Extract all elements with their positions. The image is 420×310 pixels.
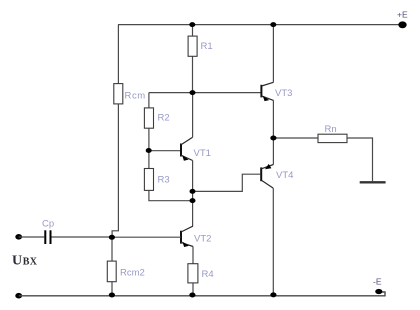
wire: R1 column (rail to node A) [192,25,194,93]
wire: VT4 collector down to rail [272,188,274,295]
terminal +E [398,21,406,28]
junction input node [109,235,115,240]
svg-text:VT3: VT3 [275,88,292,99]
input terminal top [15,234,22,240]
wire: Rcm column from +E rail to input node [112,25,118,238]
wire: top +E rail [118,24,401,26]
svg-text:VT1: VT1 [194,148,211,159]
ground [360,181,386,183]
junction VT4 collector on rail [270,292,276,297]
junction R2/R3/VT1 base [146,148,152,153]
resistor R4 [188,264,198,283]
wire: Rn to ground [347,138,373,181]
resistor R1 [188,36,197,56]
junction on rail at VT3 collector [270,22,276,27]
junction Rcm2 bottom on rail [109,293,115,298]
terminal -E [375,289,382,294]
transistor VT1 [181,137,193,160]
junction VT1 emitter to VT4 base [190,189,196,194]
svg-text:VT2: VT2 [194,234,211,245]
wire: VT3 emitter down to output node [272,100,274,138]
svg-text:VT4: VT4 [276,170,293,181]
wire: output node to Rn [273,137,318,139]
wire: VT4 emitter up to output node [272,138,274,165]
svg-text:R2: R2 [158,113,170,124]
svg-text:UВХ: UВХ [12,254,38,269]
junction node A (R1 bottom) [190,90,196,95]
resistor R2 [144,108,153,128]
wire: VT2 base from input node [112,236,181,238]
wire: node A horizontal to VT3 base [149,92,262,94]
wire: bottom rail [19,292,385,296]
junction R4 bottom on rail [189,293,195,298]
junction output node [270,136,276,141]
junction R3 bottom on emitter column [190,198,196,203]
svg-text:Rcm2: Rcm2 [120,267,145,278]
wire: VT1 base [149,150,181,152]
svg-text:Cp: Cp [42,219,54,230]
svg-text:R3: R3 [158,175,170,186]
wire: input to capacitor [19,236,45,238]
wire: VT2 emitter down to R4 and rail [192,247,194,296]
svg-text:R1: R1 [201,41,213,52]
wire: from emitter node to VT4 base [193,174,261,191]
resistor Rcm [114,84,123,104]
transistor VT4 [261,164,273,188]
transistor VT3 [261,82,273,101]
svg-text:-E: -E [373,276,382,286]
wire: VT3 collector up to rail [272,25,274,83]
resistor Rn [318,134,347,142]
input terminal bottom [15,293,22,299]
wire: VT1 collector up to node A [192,93,194,138]
wire: R3 column and bottom jog to VT1 emitter column [149,151,192,201]
svg-text:+E: +E [397,9,408,19]
wire: Rcm2 column [111,237,113,295]
svg-text:R4: R4 [202,269,214,280]
capacitor Cp [45,230,50,244]
resistor R3 [144,169,153,191]
wire: capacitor to input node [52,236,113,238]
transistor VT2 [181,226,193,247]
wire: R2 column [148,93,150,151]
resistor Rcm2 [107,261,116,282]
junction on rail at R1 [189,22,195,27]
wire: VT1 emitter column down to VT2 collector [192,161,194,227]
svg-text:Rn: Rn [325,124,337,135]
svg-text:Rcm: Rcm [125,91,146,102]
